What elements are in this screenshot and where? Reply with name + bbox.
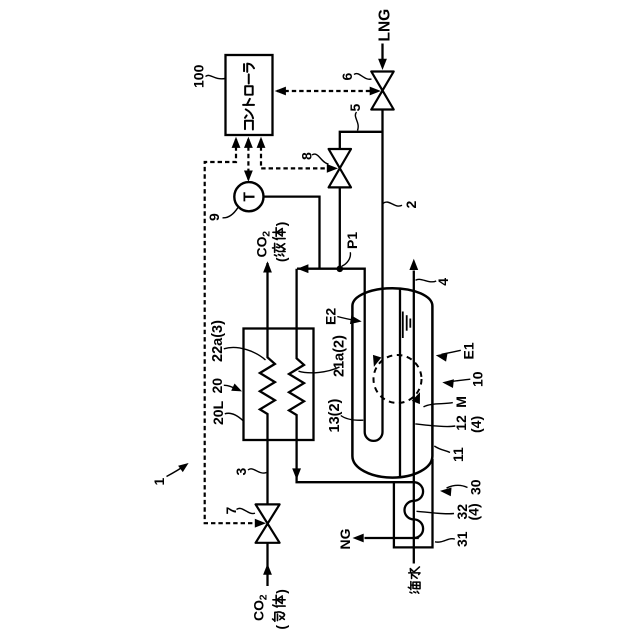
arrow: NG out xyxy=(353,534,364,543)
valve 8 (bypass line 5) xyxy=(329,149,351,187)
svg-text:CO: CO xyxy=(254,236,270,257)
dashed: controller to valve 7 (left route) xyxy=(205,139,258,523)
liquid level marks in tank xyxy=(403,312,411,339)
svg-text:1: 1 xyxy=(151,478,167,486)
svg-text:21a(2): 21a(2) xyxy=(332,335,348,377)
svg-text:(: ( xyxy=(274,257,289,262)
leader 32 xyxy=(417,511,455,514)
svg-text:8: 8 xyxy=(299,152,315,160)
controller text (katakana, rotated) xyxy=(243,64,254,130)
arrow: flow down out of HX20 xyxy=(292,468,301,479)
controller 100 box xyxy=(226,55,273,135)
arrow: CO2 gas in xyxy=(263,564,272,575)
svg-text:(4): (4) xyxy=(468,416,484,433)
svg-text:100: 100 xyxy=(191,64,207,88)
leader 9 xyxy=(223,208,238,218)
label CO2 (liquid) xyxy=(254,231,273,258)
wire: temperature sensor tap line xyxy=(264,197,320,268)
svg-text:10: 10 xyxy=(470,371,486,387)
leader 10 with arrow xyxy=(450,379,471,382)
leader 2 xyxy=(383,202,402,206)
leader E2 with arrow xyxy=(337,317,356,321)
valve 7 (CO2 gas inlet) xyxy=(256,504,280,542)
svg-text:2: 2 xyxy=(258,594,270,600)
arrow: flow left into HX20 leg xyxy=(297,264,308,273)
svg-text:12: 12 xyxy=(453,415,469,431)
wire: line 5 branch to valve 8 xyxy=(340,132,383,149)
arrow: LNG into valve 6 xyxy=(378,59,387,70)
tank E1 shell xyxy=(352,288,432,477)
dashed: controller to sensor T xyxy=(247,139,249,180)
wire: P1 header (tank E2 outlet to HX20 inlet) xyxy=(297,269,365,432)
svg-text:30: 30 xyxy=(468,479,484,495)
arrow: CO2 liquid out xyxy=(263,261,272,272)
svg-text:22a(3): 22a(3) xyxy=(210,320,226,362)
leader 4 xyxy=(416,279,437,282)
leader 20 with arrow xyxy=(224,385,236,389)
svg-text:20: 20 xyxy=(209,378,225,394)
leader 31 xyxy=(435,539,455,542)
leader 21a(2) xyxy=(299,367,340,373)
svg-text:2: 2 xyxy=(261,231,273,237)
svg-text:): ) xyxy=(274,222,289,227)
leader 7 xyxy=(237,508,256,513)
dashed: controller to valve 6 xyxy=(277,90,379,92)
tank E1 internal line xyxy=(399,289,401,477)
wire: valve 8 outlet down to junction P1 xyxy=(339,187,341,269)
leader E1 with arrow xyxy=(442,350,461,354)
wire: CO2 gas inlet below valve 7 xyxy=(266,543,268,586)
svg-text:2: 2 xyxy=(403,201,419,209)
svg-text:LNG: LNG xyxy=(377,9,394,42)
label CO2 (gas) xyxy=(251,594,270,621)
svg-text:(4): (4) xyxy=(466,503,482,520)
svg-text:9: 9 xyxy=(206,213,222,221)
svg-text:M: M xyxy=(453,396,469,408)
leader 8 xyxy=(312,154,329,164)
svg-text:NG: NG xyxy=(337,528,353,549)
svg-text:P1: P1 xyxy=(344,232,360,249)
svg-text:13(2): 13(2) xyxy=(327,398,343,432)
svg-text:): ) xyxy=(274,589,289,594)
svg-text:(: ( xyxy=(274,625,289,630)
wire: seawater line 4 through HX30 and tank, out top xyxy=(413,271,415,564)
svg-text:E2: E2 xyxy=(323,308,339,325)
dashed: controller to valve 8 xyxy=(261,139,330,168)
wire: U-tube bend of evaporator E2 xyxy=(365,432,383,441)
svg-text:E1: E1 xyxy=(461,342,477,359)
leader 1 with arrow xyxy=(167,465,186,477)
svg-text:20L: 20L xyxy=(210,400,226,425)
leader P1 xyxy=(342,252,351,266)
svg-text:31: 31 xyxy=(454,531,470,547)
temperature sensor 9 (T) xyxy=(234,182,263,211)
svg-text:6: 6 xyxy=(339,73,355,81)
leader 3 xyxy=(248,469,267,473)
svg-text:4: 4 xyxy=(435,278,451,286)
wire: LNG inlet stub xyxy=(381,44,383,62)
heat exchanger 20 shell xyxy=(244,329,314,441)
leader 6 xyxy=(354,74,372,80)
wire: CO2 path with coil 22a through HX20 down to valve 7 xyxy=(260,329,275,505)
leader 11 xyxy=(434,446,450,453)
wire: NG outlet from HX30 xyxy=(365,537,419,539)
leader 20L xyxy=(225,413,243,420)
wire: line 2 (LNG feed from valve 6 down into tank, U-tube right leg) xyxy=(381,110,383,432)
leader 100 xyxy=(206,75,226,78)
svg-text:3: 3 xyxy=(233,468,249,476)
svg-text:11: 11 xyxy=(450,447,466,462)
leader 12 xyxy=(415,424,455,427)
node P1 junction dot xyxy=(337,266,344,273)
leader 30 with arrow xyxy=(447,485,468,488)
wire: LNG path with coil 21a through HX20 then to HX30 xyxy=(289,269,414,483)
svg-text:7: 7 xyxy=(223,507,239,515)
arrow: line 4 out top xyxy=(409,259,418,270)
wire: CO2 liquid outlet line above HX20 xyxy=(266,263,268,329)
leader 5 xyxy=(355,112,358,131)
circulation of medium M (dashed circle with arrows) xyxy=(374,355,422,403)
leader M xyxy=(424,403,453,407)
leader 13(2) xyxy=(341,416,364,421)
heater coil 32 in HX30 xyxy=(404,482,423,538)
svg-text:5: 5 xyxy=(347,104,363,112)
label seawater (kanji) xyxy=(408,567,420,593)
svg-text:CO: CO xyxy=(251,600,267,621)
leader 22a(3) xyxy=(224,347,266,360)
svg-text:T: T xyxy=(241,192,258,202)
valve 6 (LNG inlet control) xyxy=(371,72,393,110)
heat exchanger 30 shell xyxy=(394,459,433,547)
